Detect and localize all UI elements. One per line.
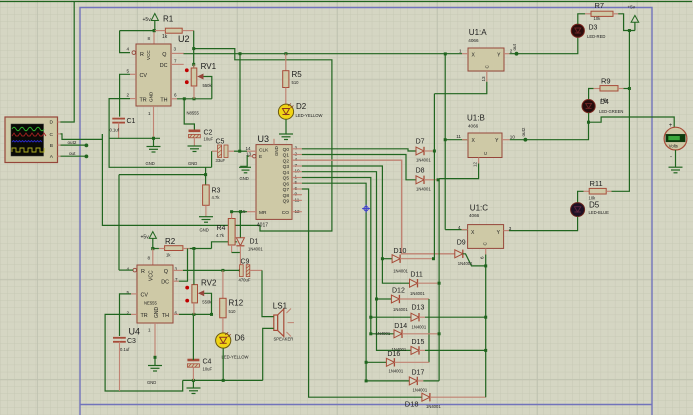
diode D9 [455, 239, 486, 266]
node: R1/DC junction dot [192, 47, 195, 50]
node: RV2 top dot [192, 247, 195, 250]
svg-text:Volts: Volts [669, 144, 678, 149]
diode D10 [382, 248, 433, 273]
svg-text:CV: CV [140, 73, 148, 79]
speaker LS1 [273, 301, 294, 341]
ground voltmeter [669, 167, 683, 173]
svg-text:D4: D4 [600, 99, 609, 106]
IC U4 NE555 body [133, 265, 173, 323]
svg-text:1N4001: 1N4001 [412, 324, 427, 329]
wire: voltmeter to ground [675, 150, 677, 167]
svg-text:C9: C9 [241, 258, 250, 265]
ground U4 [147, 357, 162, 385]
LED D3 red [571, 24, 605, 39]
svg-text:LED-YELLOW: LED-YELLOW [222, 354, 249, 359]
svg-text:4066: 4066 [469, 213, 480, 218]
node: D8 cathode dot [437, 178, 440, 181]
svg-text:D10: D10 [394, 248, 407, 255]
node: U1A input dot [444, 52, 447, 55]
node: D6 bottom dot [222, 379, 225, 382]
svg-text:1N4001: 1N4001 [410, 291, 425, 296]
svg-text:CO: CO [282, 210, 289, 216]
svg-text:33uF: 33uF [216, 158, 226, 163]
node: TH junction dots [183, 97, 186, 100]
node: R5 tap dot [284, 52, 287, 55]
svg-text:CV: CV [141, 292, 149, 298]
diode D8 [416, 167, 439, 191]
wire: node to D1 anode [212, 242, 237, 249]
svg-text:R5: R5 [292, 70, 303, 79]
svg-text:TR: TR [141, 313, 148, 319]
svg-text:VCC: VCC [149, 270, 155, 281]
svg-text:D18: D18 [405, 400, 419, 409]
svg-text:C3: C3 [127, 338, 136, 345]
svg-text:Q6: Q6 [283, 182, 290, 188]
svg-text:R2: R2 [165, 237, 176, 246]
svg-text:+: + [669, 123, 673, 129]
svg-text:Q8: Q8 [283, 193, 290, 199]
svg-text:out2: out2 [521, 127, 526, 136]
capacitor C5 [212, 139, 234, 164]
svg-text:D5: D5 [589, 200, 600, 209]
svg-text:1k: 1k [162, 34, 168, 40]
wire: U1:C output to D5 bottom [509, 217, 578, 231]
ground D2/U3 [279, 134, 293, 140]
svg-text:LED-GREEN: LED-GREEN [599, 109, 623, 114]
svg-text:550k: 550k [203, 83, 213, 88]
wire: R3 top feed [119, 167, 206, 270]
resistor R12 [220, 270, 244, 333]
svg-text:2: 2 [295, 151, 298, 156]
svg-text:LED-RED: LED-RED [587, 34, 605, 39]
wire: Q7 long drop to D18 [302, 189, 422, 397]
svg-text:E: E [259, 154, 262, 160]
ground pin13 [239, 167, 251, 181]
diode D14 [376, 323, 440, 338]
wire: C1 bottom / U2 gnd net [109, 137, 160, 139]
svg-text:D: D [50, 120, 54, 126]
svg-text:12: 12 [473, 161, 478, 167]
resistor R9 [589, 76, 630, 102]
node: D7 cathode dot [433, 150, 436, 153]
node: gnd junction dot [152, 137, 155, 140]
svg-text:D11: D11 [410, 271, 422, 278]
svg-text:Q3: Q3 [283, 164, 290, 170]
svg-text:+5v: +5v [143, 17, 152, 23]
svg-text:1N4001: 1N4001 [248, 247, 263, 252]
svg-text:U4: U4 [129, 327, 141, 337]
potentiometer RV2 [185, 249, 217, 315]
wire: U4 TR down [105, 314, 183, 391]
svg-text:3: 3 [174, 47, 177, 52]
svg-text:1: 1 [459, 49, 462, 54]
resistor R2 [153, 237, 190, 258]
terminal out (net tap on U1:A output) [515, 52, 519, 56]
IC U2 NE555 body [132, 44, 171, 106]
node: out terminal [85, 155, 89, 159]
svg-text:C5: C5 [216, 139, 225, 146]
svg-text:4066: 4066 [468, 123, 479, 128]
svg-text:D9: D9 [457, 239, 466, 246]
wire: TH to C2 jog [184, 99, 194, 130]
wire: U2 Q output main run y53.4 [184, 52, 462, 54]
wire: input rail from Q line [444, 54, 446, 230]
wire: C5 left to TR net [211, 151, 213, 167]
wire: scope B out2 terminal [61, 144, 87, 146]
svg-text:+5v: +5v [141, 235, 150, 241]
U3 pin stubs [247, 139, 302, 212]
terminal out2 (net tap) [524, 138, 528, 142]
svg-text:6: 6 [480, 256, 485, 259]
U3 output labels Q0-Q9 CO [282, 147, 290, 216]
U4 pin numbers [127, 255, 179, 332]
wire: +5v node to U2 VCC and R pin [120, 31, 155, 53]
svg-text:Q: Q [162, 52, 166, 58]
wire: Q2 red run to D9 [292, 160, 455, 254]
marker: origin cross [362, 205, 370, 213]
svg-text:Q9: Q9 [283, 199, 290, 205]
wire: U1:A control to rail A [434, 82, 486, 94]
svg-text:7: 7 [295, 163, 298, 168]
wire: U1:B output to D4 bottom [510, 122, 589, 140]
resistor R3 [203, 185, 221, 217]
svg-text:CLK: CLK [259, 148, 269, 154]
svg-text:D7: D7 [416, 139, 425, 146]
wire: rail B (U1:B control) [438, 179, 440, 381]
svg-text:5: 5 [295, 180, 298, 185]
svg-text:1N4001: 1N4001 [393, 307, 408, 312]
svg-text:B: B [50, 143, 53, 149]
svg-text:10: 10 [295, 169, 301, 174]
svg-text:U3: U3 [258, 134, 270, 144]
wire: C5 right to U3 CLK [234, 150, 247, 152]
svg-text:D14: D14 [394, 323, 407, 330]
node: R3 top dot [204, 173, 207, 176]
svg-text:2: 2 [127, 93, 130, 98]
svg-text:D3: D3 [589, 25, 598, 32]
svg-text:Q: Q [164, 269, 168, 275]
diode D1 (vertical) [236, 212, 263, 271]
ground C2 [188, 146, 202, 166]
diode D16 [366, 351, 429, 374]
power +5v right [628, 4, 639, 30]
svg-text:9: 9 [295, 192, 298, 197]
wire: D4 bottom [588, 113, 590, 123]
svg-text:1N4001: 1N4001 [376, 331, 391, 336]
node: D17 anode dot [365, 379, 368, 382]
wire: Q6 staircase [302, 183, 409, 381]
svg-text:1N4001: 1N4001 [458, 261, 473, 266]
node: R9 rail dot [628, 87, 631, 90]
wire: U4 CV to C3 [120, 294, 132, 336]
wire: U4 DC up to R2 node [179, 249, 188, 282]
svg-text:DC: DC [161, 280, 169, 286]
potentiometer RV1 [185, 62, 217, 99]
wire: U2 TH to RV1 net [177, 98, 212, 100]
svg-text:MR: MR [259, 210, 267, 216]
svg-text:R1: R1 [163, 15, 174, 24]
svg-text:Q0: Q0 [283, 147, 290, 153]
svg-text:out: out [512, 43, 517, 50]
svg-text:4: 4 [127, 267, 130, 272]
svg-text:D13: D13 [412, 305, 425, 312]
svg-text:C: C [50, 132, 54, 138]
svg-text:Q5: Q5 [283, 176, 290, 182]
svg-text:0.1uf: 0.1uf [110, 128, 120, 133]
node: D9/U1C ctrl dot [484, 264, 487, 267]
wire: Q4 staircase [302, 172, 411, 351]
node: D16 anode dot [365, 361, 368, 364]
wire: U1:A output to D3 [510, 37, 578, 53]
svg-text:4.7k: 4.7k [216, 233, 225, 238]
ground C4 [187, 380, 201, 393]
svg-text:SPEAKER: SPEAKER [274, 336, 294, 341]
svg-text:1N4001: 1N4001 [413, 387, 428, 392]
IC U3 4017 [253, 134, 293, 229]
diode D15 [392, 339, 486, 355]
svg-text:6: 6 [295, 186, 298, 191]
svg-text:1: 1 [295, 174, 298, 179]
svg-text:TH: TH [160, 98, 167, 104]
wire: Q5 staircase [302, 178, 394, 334]
wire: mid rail D12-D16 [428, 299, 430, 362]
node: D10 cathode dot [432, 257, 435, 260]
svg-text:8: 8 [148, 36, 151, 41]
oscilloscope [5, 117, 61, 163]
svg-text:VCC: VCC [146, 50, 151, 60]
svg-text:TH: TH [162, 313, 169, 319]
node: D13 anode dot [369, 316, 372, 319]
node: junction at +5v/R1 [153, 29, 156, 32]
svg-text:R7: R7 [595, 1, 605, 10]
svg-text:10: 10 [510, 135, 516, 140]
capacitor C2 (electrolytic) [189, 130, 214, 147]
svg-text:R11: R11 [590, 179, 603, 188]
wire: R1 right to DC node and to y48.6 run [102, 31, 332, 231]
svg-text:GND: GND [240, 176, 249, 181]
wire: U1:C control to D9 node [485, 255, 487, 266]
wire: gnd rail under U4 [183, 379, 263, 381]
svg-text:4: 4 [458, 225, 461, 230]
diode D11 [410, 271, 440, 296]
svg-text:14: 14 [246, 146, 252, 151]
svg-text:R9: R9 [601, 76, 611, 85]
resistor R7 [578, 1, 635, 31]
svg-text:LED-BLUE: LED-BLUE [589, 210, 610, 215]
U2 pin stubs [130, 53, 184, 138]
power +5v U4 [141, 232, 157, 249]
diode D13 [371, 305, 486, 330]
wire: Q3 staircase [302, 166, 410, 283]
wire: E pin13 to gnd [241, 156, 249, 167]
svg-text:GND: GND [154, 307, 160, 319]
svg-text:5: 5 [127, 69, 130, 74]
node: D15 cathode dot [484, 349, 487, 352]
wire: scope C to left vertical [61, 134, 103, 140]
svg-text:R: R [141, 269, 145, 275]
svg-text:1N4001: 1N4001 [416, 158, 431, 163]
node: D13 cathode dot [484, 316, 487, 319]
svg-text:GND: GND [274, 146, 279, 156]
svg-text:1: 1 [148, 328, 151, 333]
wire: to voltmeter [589, 117, 675, 127]
svg-text:U1:C: U1:C [470, 203, 488, 212]
svg-text:C4: C4 [203, 359, 212, 366]
diode D17 [409, 369, 439, 392]
svg-text:11: 11 [456, 134, 461, 139]
resistor R4 [216, 212, 240, 253]
svg-text:D8: D8 [416, 167, 425, 174]
wire: CLK vertical from Q line [239, 54, 241, 152]
wire: C9 to speaker top [262, 270, 274, 316]
node: D14 cathode dot [438, 332, 441, 335]
svg-text:D15: D15 [412, 339, 425, 346]
svg-text:1: 1 [148, 111, 151, 116]
svg-text:RV2: RV2 [201, 279, 217, 288]
svg-text:D1: D1 [250, 239, 259, 246]
svg-text:4: 4 [127, 47, 130, 52]
wire: R2 right node [190, 248, 212, 250]
svg-text:GND: GND [200, 228, 209, 233]
wire: +5v rail right side [612, 31, 630, 192]
svg-text:510: 510 [292, 80, 300, 85]
capacitor C1 [110, 118, 136, 138]
svg-text:R4: R4 [217, 225, 226, 232]
svg-text:3: 3 [295, 146, 298, 151]
svg-text:D12: D12 [392, 288, 405, 295]
svg-text:0.1uf: 0.1uf [120, 347, 130, 352]
svg-text:TR: TR [140, 98, 147, 104]
capacitor C3 [113, 338, 136, 391]
svg-text:6: 6 [174, 93, 177, 98]
wire: U2 CV to C1 [120, 74, 130, 116]
diode D12 [377, 288, 430, 312]
svg-text:RV1: RV1 [201, 62, 217, 71]
svg-text:13: 13 [481, 76, 486, 82]
svg-text:8: 8 [148, 255, 151, 260]
LED D5 blue [571, 200, 610, 216]
svg-text:510: 510 [229, 309, 237, 314]
svg-text:LS1: LS1 [273, 301, 288, 310]
svg-text:4066: 4066 [468, 38, 479, 43]
svg-text:10uF: 10uF [204, 137, 214, 142]
U2 pin numbers [127, 36, 178, 116]
svg-text:1N4001: 1N4001 [426, 404, 441, 409]
switch U1:B [445, 113, 515, 167]
svg-text:Q4: Q4 [283, 170, 290, 176]
capacitor C9 (electrolytic vertical) [239, 258, 263, 282]
svg-text:D6: D6 [235, 334, 246, 343]
svg-text:DC: DC [160, 63, 168, 69]
svg-text:10k: 10k [594, 16, 602, 21]
wire: U1:B control to rail B [439, 164, 479, 179]
node: C4 bottom dot [192, 379, 195, 382]
svg-text:Q1: Q1 [283, 153, 290, 159]
svg-text:U1:A: U1:A [469, 28, 487, 37]
wire: +5v to U4 VCC [152, 249, 154, 266]
svg-text:R3: R3 [212, 188, 221, 195]
svg-text:GND: GND [188, 161, 197, 166]
svg-text:R12: R12 [229, 299, 244, 308]
wire: top rail from oscilloscope D [0, 1, 692, 3]
switch U1:C [445, 203, 512, 259]
svg-text:C2: C2 [204, 130, 213, 137]
svg-text:D16: D16 [387, 351, 400, 358]
svg-text:470uF: 470uF [239, 278, 251, 283]
ground R3 [199, 217, 213, 233]
node: Q-D1 dot [239, 269, 242, 272]
wire: Q1 to D8 [302, 155, 416, 180]
svg-text:1N4001: 1N4001 [389, 369, 404, 374]
wire: U4 R pin to rail [119, 269, 133, 271]
svg-text:out: out [69, 151, 76, 156]
node: CLK tap dot [239, 52, 242, 55]
svg-text:-: - [670, 155, 672, 161]
node: MR dots [239, 210, 242, 213]
wire: D2 cathode to ground [285, 119, 287, 134]
svg-text:GND: GND [146, 161, 155, 166]
power +5v U2 top [143, 14, 159, 31]
LED D6 yellow [216, 332, 249, 359]
svg-text:1N4001: 1N4001 [393, 268, 408, 273]
wire: Q0 to D7 [302, 149, 416, 151]
svg-text:NE555: NE555 [144, 301, 157, 306]
node: D12 anode dot [375, 298, 378, 301]
svg-text:1N4001: 1N4001 [416, 186, 431, 191]
resistor R1 [155, 15, 194, 41]
svg-text:N8555: N8555 [187, 111, 200, 116]
svg-text:Q2: Q2 [283, 159, 290, 165]
wire: U3 MR to R4/D1 [231, 211, 247, 213]
svg-text:550k: 550k [202, 300, 212, 305]
svg-text:D17: D17 [412, 369, 425, 376]
wire: scope A out terminal [61, 155, 87, 157]
node: D10 anode dot [381, 257, 384, 260]
svg-text:+5v: +5v [628, 4, 636, 9]
node: Q-R12 dot [221, 269, 224, 272]
svg-text:LED-YELLOW: LED-YELLOW [296, 113, 323, 118]
svg-text:Q7: Q7 [283, 187, 290, 193]
voltmeter [664, 123, 687, 161]
U4 pin stubs [131, 270, 183, 357]
node: U4 gnd dot [154, 356, 157, 359]
wire: rail C (U1:C control) [485, 266, 487, 397]
svg-text:GND: GND [147, 380, 156, 385]
wire: U4 TH line [179, 313, 212, 315]
switch U1:A [459, 28, 513, 82]
wire: D6 bottom [222, 348, 224, 380]
node: out2 terminal [85, 144, 89, 148]
wire: speaker bottom to gnd rail [263, 328, 274, 380]
svg-text:U1:B: U1:B [467, 113, 485, 122]
svg-text:R: R [140, 52, 144, 58]
diode D7 [416, 139, 435, 163]
wire: rail A (U1:A control) [433, 94, 435, 259]
LED D2 yellow [278, 102, 322, 119]
capacitor C4 (electrolytic) [187, 316, 212, 380]
node: D11 cathode dot [438, 282, 441, 285]
svg-text:out2: out2 [68, 140, 77, 145]
resistor R5 [283, 54, 303, 105]
node: CLK junction dot [238, 150, 241, 153]
ground U2 [146, 138, 161, 166]
svg-text:7: 7 [174, 59, 177, 64]
node: +5v rail dot [628, 29, 631, 32]
svg-text:U2: U2 [178, 34, 190, 44]
wire: U4 Q out to C9/R12 [183, 269, 240, 271]
wire: U2 TR down-left run [109, 99, 212, 168]
diode D18 [405, 393, 486, 409]
